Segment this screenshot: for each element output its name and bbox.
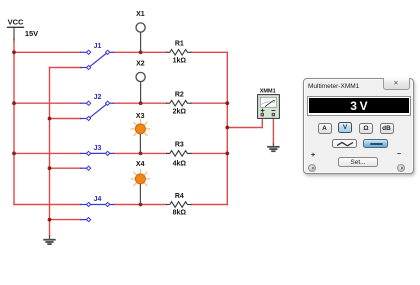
svg-text:X4: X4 (136, 161, 145, 168)
svg-text:XMM1: XMM1 (260, 88, 276, 94)
svg-text:2kΩ: 2kΩ (173, 108, 187, 115)
svg-text:R1: R1 (175, 41, 184, 48)
svg-text:R4: R4 (175, 193, 184, 200)
svg-text:X3: X3 (136, 113, 145, 120)
svg-text:J2: J2 (94, 94, 102, 101)
svg-text:J4: J4 (94, 196, 102, 203)
svg-text:4kΩ: 4kΩ (173, 161, 187, 168)
svg-text:J3: J3 (94, 145, 102, 152)
svg-text:J1: J1 (94, 43, 102, 50)
svg-text:R2: R2 (175, 92, 184, 99)
svg-text:1kΩ: 1kΩ (173, 57, 187, 64)
svg-text:15V: 15V (25, 29, 38, 38)
svg-text:VCC: VCC (8, 18, 24, 27)
svg-text:X1: X1 (136, 11, 145, 18)
svg-text:X2: X2 (136, 61, 145, 68)
svg-text:8kΩ: 8kΩ (173, 210, 187, 217)
svg-text:R3: R3 (175, 142, 184, 149)
